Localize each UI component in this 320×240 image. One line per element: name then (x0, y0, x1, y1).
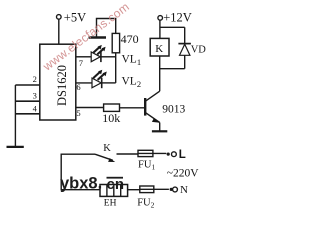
terminal +5V (57, 15, 62, 20)
LED VL2 (92, 70, 107, 89)
svg-text:7: 7 (79, 58, 83, 68)
node anode bar (89, 36, 107, 38)
svg-text:N: N (180, 184, 188, 196)
svg-text:6: 6 (76, 82, 80, 92)
relay contact K (95, 154, 115, 162)
svg-text:K: K (103, 143, 111, 154)
wire pin2 (15, 84, 39, 86)
wire EH to FU2 (128, 189, 140, 191)
transistor Q1 9013 (145, 91, 160, 130)
wire R1 top hook (97, 19, 116, 37)
fuse FU2 (140, 186, 169, 193)
wire bottom junction bar (160, 68, 185, 70)
wire top junction bar (160, 26, 185, 28)
wire pin6 (76, 82, 92, 84)
svg-text:3: 3 (33, 91, 37, 101)
node N dot (170, 188, 173, 191)
terminal N (173, 187, 178, 192)
diode VD (178, 44, 191, 56)
wire R2 to base (120, 107, 145, 109)
terminal +12V (158, 16, 163, 21)
ground (emitter) (152, 130, 167, 132)
watermark cn overline (107, 177, 124, 179)
svg-text:ybx8.: ybx8. (60, 175, 102, 193)
svg-text:470: 470 (121, 32, 139, 46)
svg-text:2: 2 (33, 74, 37, 84)
svg-text:L: L (179, 149, 186, 161)
wire diode branch bottom (184, 55, 186, 68)
svg-text:+5V: +5V (64, 10, 86, 24)
svg-text:4: 4 (33, 103, 38, 113)
svg-text:10k: 10k (102, 111, 120, 125)
node L dot (167, 153, 170, 156)
wire VL2 cathode (102, 82, 116, 84)
fuse FU1 (138, 150, 166, 156)
svg-text:K: K (155, 43, 163, 55)
IC U1 DS1620 (40, 44, 76, 120)
svg-text:EH: EH (104, 199, 117, 209)
heater EH (100, 185, 128, 197)
wire VL1 cathode (101, 56, 116, 58)
resistor R2 10k (104, 104, 120, 111)
wire contact to FU1 (117, 153, 139, 155)
wire diode branch top (184, 27, 186, 44)
wire left bus (14, 85, 16, 146)
wire +12V down (159, 20, 161, 38)
wire pin4 (15, 113, 39, 115)
ground (left) (7, 146, 24, 148)
wire pin7 (76, 56, 91, 58)
svg-text:~220V: ~220V (167, 168, 199, 180)
svg-text:DS1620: DS1620 (55, 65, 69, 106)
wire mains left loop (61, 154, 100, 190)
svg-text:9013: 9013 (162, 103, 185, 115)
svg-text:VD: VD (191, 45, 207, 56)
wire +5V to IC pin8 (58, 19, 60, 44)
wire pin5 (76, 107, 104, 109)
wire relay to collector (159, 56, 161, 91)
wire pin3 (15, 100, 39, 102)
relay coil K (150, 38, 169, 56)
svg-text:5: 5 (76, 108, 80, 118)
terminal L (172, 152, 177, 157)
svg-text:+12V: +12V (163, 11, 192, 25)
LED VL1 (91, 45, 105, 62)
wire LED cathode rail (115, 53, 117, 83)
resistor R1 470 (112, 33, 119, 52)
